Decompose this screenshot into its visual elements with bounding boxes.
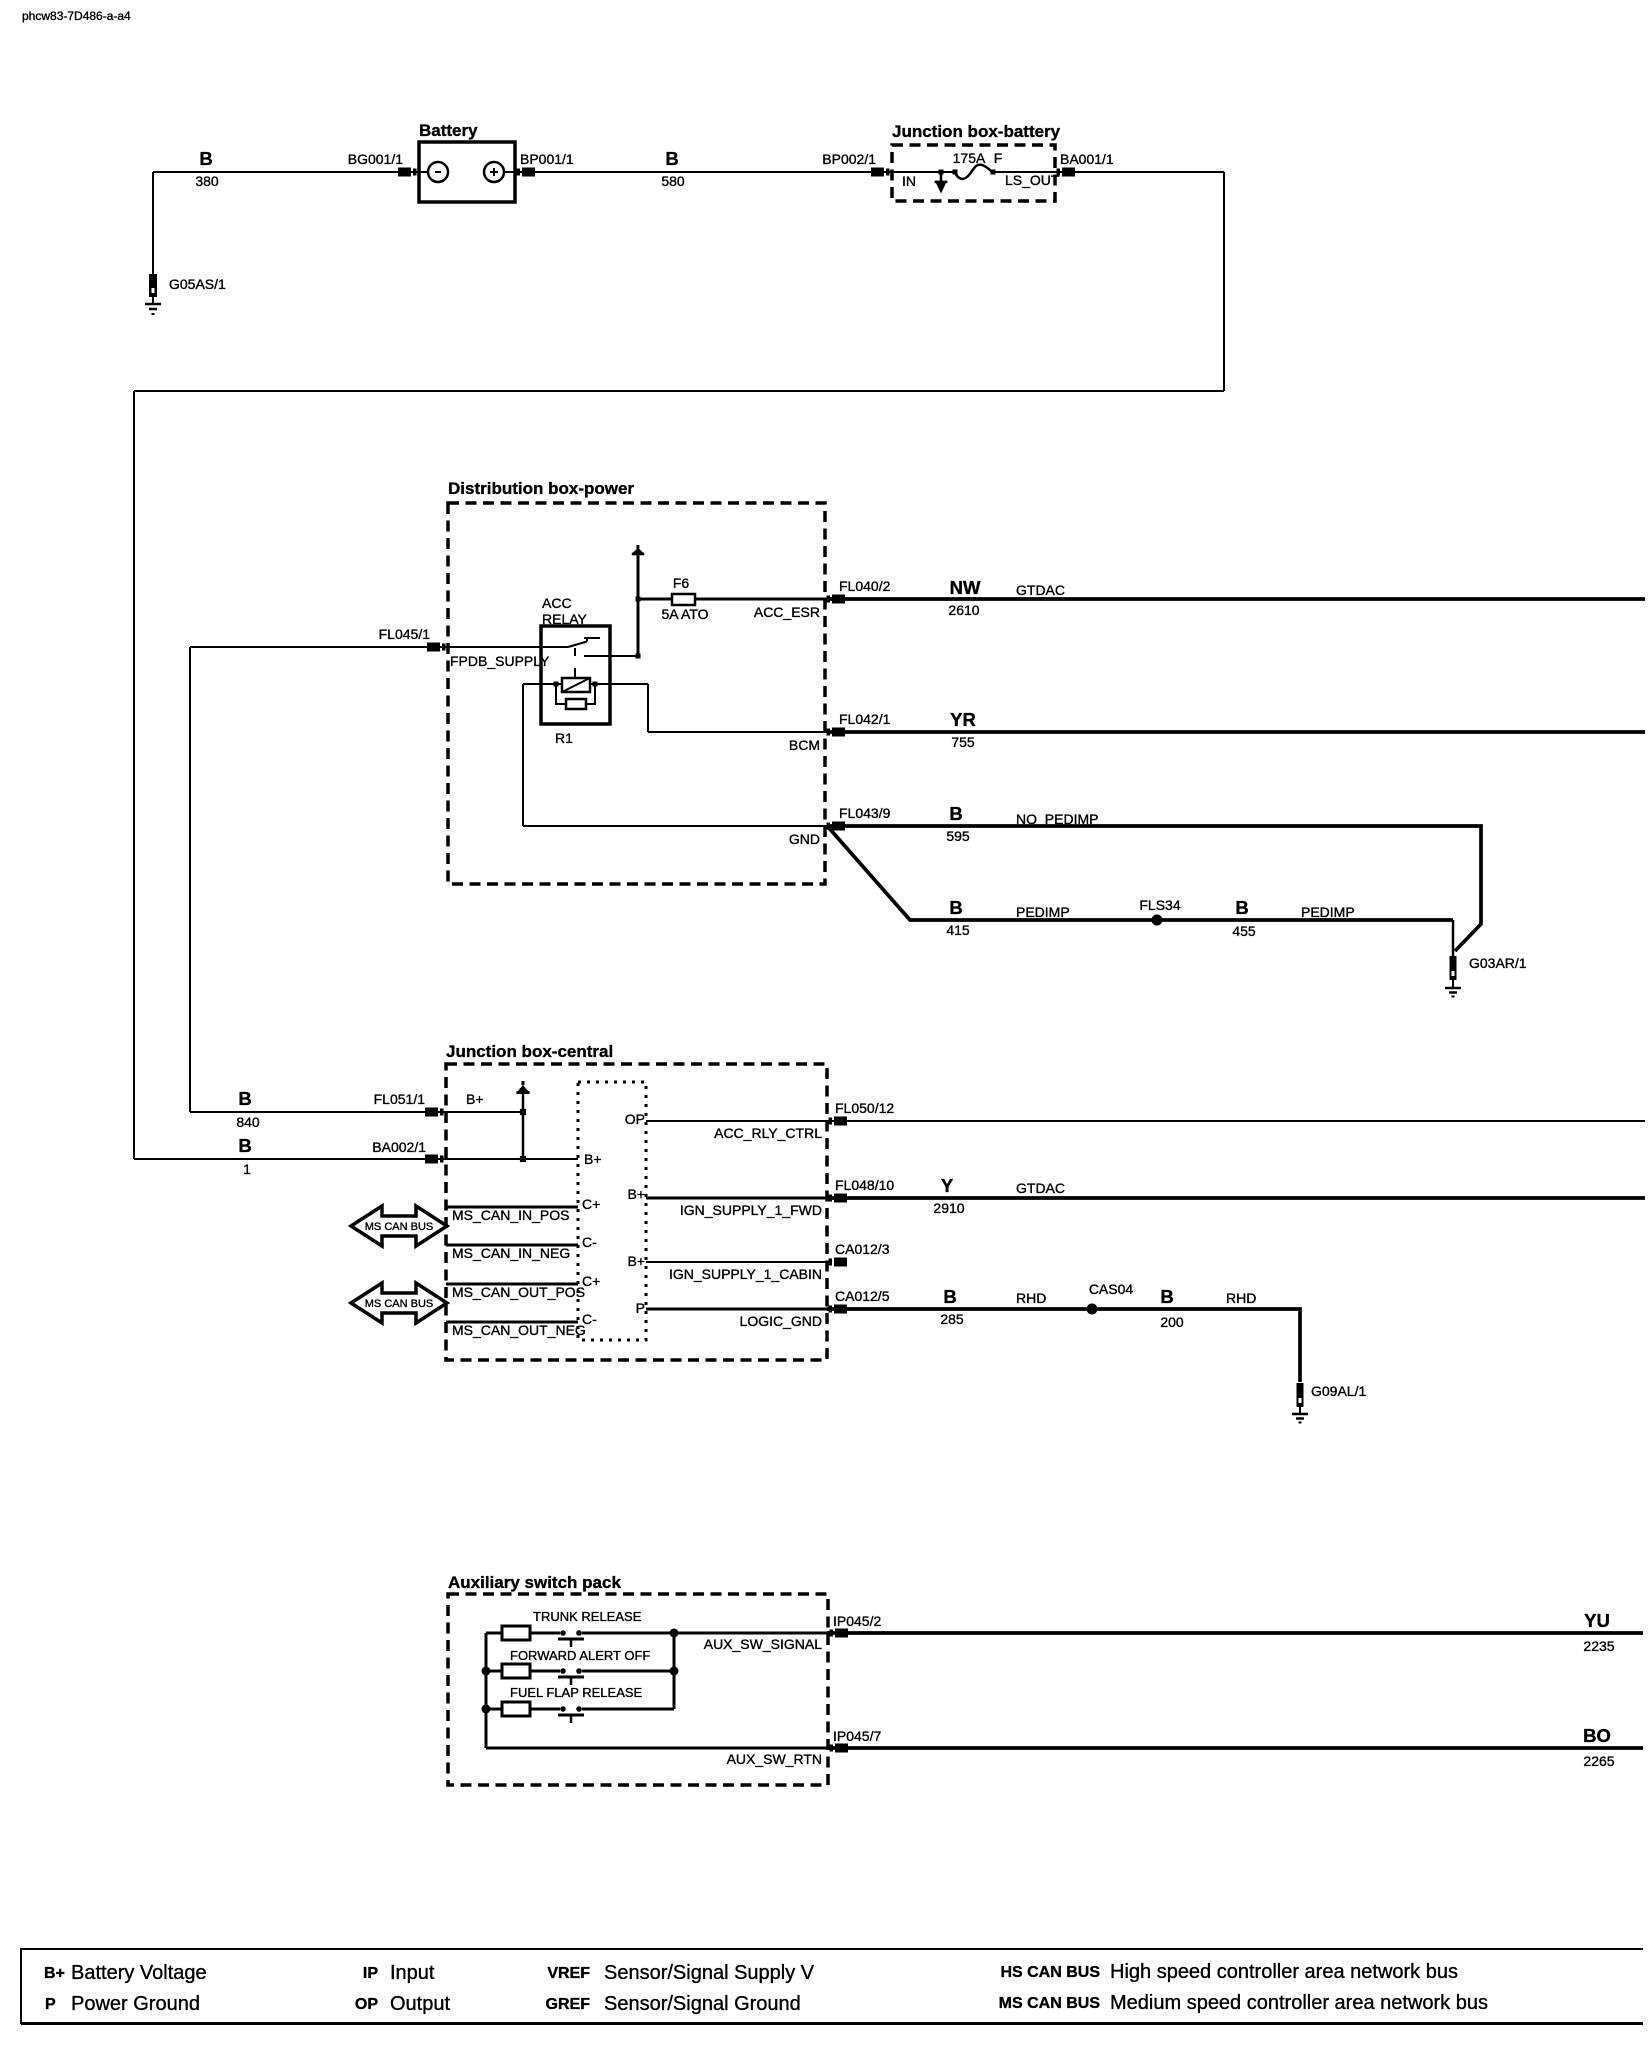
svg-text:B: B — [199, 148, 212, 169]
svg-text:G05AS/1: G05AS/1 — [169, 276, 226, 292]
svg-text:Input: Input — [390, 1962, 435, 1984]
svg-text:MS CAN BUS: MS CAN BUS — [365, 1298, 433, 1310]
svg-text:Power Ground: Power Ground — [71, 1993, 200, 2015]
svg-text:ACC_ESR: ACC_ESR — [754, 604, 820, 620]
svg-text:Battery: Battery — [419, 121, 478, 140]
svg-text:FL042/1: FL042/1 — [839, 711, 891, 727]
svg-text:BA001/1: BA001/1 — [1060, 151, 1114, 167]
svg-text:BCM: BCM — [789, 737, 820, 753]
svg-text:B: B — [238, 1135, 251, 1156]
svg-text:R1: R1 — [555, 730, 573, 746]
svg-text:B: B — [238, 1088, 251, 1109]
svg-text:B: B — [1235, 897, 1248, 918]
svg-text:2610: 2610 — [948, 602, 979, 618]
svg-text:FPDB_SUPPLY: FPDB_SUPPLY — [450, 653, 550, 669]
svg-text:C+: C+ — [582, 1273, 600, 1289]
svg-text:Auxiliary switch pack: Auxiliary switch pack — [448, 1573, 621, 1592]
svg-text:FORWARD ALERT OFF: FORWARD ALERT OFF — [510, 1648, 650, 1663]
svg-text:OP: OP — [355, 1996, 378, 2013]
svg-text:B+: B+ — [627, 1186, 645, 1202]
svg-text:2265: 2265 — [1583, 1753, 1614, 1769]
svg-text:B+: B+ — [584, 1151, 602, 1167]
svg-text:IP045/2: IP045/2 — [833, 1613, 881, 1629]
svg-text:1: 1 — [243, 1161, 251, 1177]
svg-text:B: B — [1160, 1286, 1173, 1307]
svg-text:B: B — [943, 1286, 956, 1307]
svg-text:580: 580 — [661, 173, 685, 189]
svg-text:IN: IN — [902, 173, 916, 189]
svg-text:175A: 175A — [953, 150, 986, 166]
svg-text:Sensor/Signal Supply V: Sensor/Signal Supply V — [604, 1962, 815, 1984]
svg-text:Sensor/Signal Ground: Sensor/Signal Ground — [604, 1993, 801, 2015]
svg-text:2910: 2910 — [933, 1200, 964, 1216]
svg-text:MS CAN BUS: MS CAN BUS — [365, 1221, 433, 1233]
svg-text:5A ATO: 5A ATO — [662, 606, 709, 622]
svg-text:B: B — [949, 803, 962, 824]
svg-text:BP002/1: BP002/1 — [822, 151, 876, 167]
svg-text:Battery Voltage: Battery Voltage — [71, 1962, 207, 1984]
svg-text:NW: NW — [950, 577, 981, 598]
svg-text:BO: BO — [1583, 1725, 1611, 1746]
svg-text:285: 285 — [940, 1311, 964, 1327]
svg-text:415: 415 — [946, 922, 970, 938]
svg-text:C-: C- — [582, 1311, 597, 1327]
svg-text:Output: Output — [390, 1993, 450, 2015]
svg-text:AUX_SW_SIGNAL: AUX_SW_SIGNAL — [704, 1636, 822, 1652]
svg-text:LOGIC_GND: LOGIC_GND — [740, 1313, 822, 1329]
svg-text:B+: B+ — [466, 1091, 484, 1107]
svg-text:IP045/7: IP045/7 — [833, 1728, 881, 1744]
svg-text:B+: B+ — [627, 1253, 645, 1269]
svg-text:840: 840 — [236, 1114, 260, 1130]
svg-text:AUX_SW_RTN: AUX_SW_RTN — [727, 1751, 822, 1767]
svg-text:IGN_SUPPLY_1_CABIN: IGN_SUPPLY_1_CABIN — [669, 1266, 822, 1282]
svg-text:FL045/1: FL045/1 — [379, 626, 431, 642]
svg-text:C-: C- — [582, 1234, 597, 1250]
svg-text:LS_OUT: LS_OUT — [1005, 172, 1060, 188]
svg-text:OP: OP — [625, 1111, 645, 1127]
svg-text:FL040/2: FL040/2 — [839, 578, 891, 594]
svg-text:FL051/1: FL051/1 — [374, 1091, 426, 1107]
svg-text:YR: YR — [950, 709, 976, 730]
svg-text:MS_CAN_IN_POS: MS_CAN_IN_POS — [452, 1207, 569, 1223]
svg-text:IP: IP — [363, 1965, 378, 1982]
svg-text:B: B — [949, 897, 962, 918]
svg-text:FLS34: FLS34 — [1139, 897, 1180, 913]
svg-text:BG001/1: BG001/1 — [348, 151, 403, 167]
svg-text:IGN_SUPPLY_1_FWD: IGN_SUPPLY_1_FWD — [680, 1202, 822, 1218]
svg-text:High speed controller area net: High speed controller area network bus — [1110, 1961, 1458, 1983]
svg-text:Junction box-central: Junction box-central — [446, 1042, 613, 1061]
svg-text:FL043/9: FL043/9 — [839, 805, 891, 821]
svg-text:CA012/5: CA012/5 — [835, 1288, 890, 1304]
svg-text:BP001/1: BP001/1 — [520, 151, 574, 167]
svg-text:B: B — [665, 148, 678, 169]
svg-text:GTDAC: GTDAC — [1016, 582, 1065, 598]
svg-text:MS CAN BUS: MS CAN BUS — [999, 1995, 1101, 2012]
svg-text:G09AL/1: G09AL/1 — [1311, 1383, 1366, 1399]
svg-text:MS_CAN_OUT_NEG: MS_CAN_OUT_NEG — [452, 1322, 586, 1338]
svg-text:C+: C+ — [582, 1196, 600, 1212]
svg-text:2235: 2235 — [1583, 1638, 1614, 1654]
svg-text:TRUNK RELEASE: TRUNK RELEASE — [533, 1609, 642, 1624]
svg-text:Medium speed controller area n: Medium speed controller area network bus — [1110, 1992, 1488, 2014]
svg-text:B+: B+ — [44, 1965, 65, 1982]
svg-text:P: P — [636, 1300, 645, 1316]
svg-text:Distribution box-power: Distribution box-power — [448, 479, 634, 498]
svg-text:ACC_RLY_CTRL: ACC_RLY_CTRL — [714, 1125, 822, 1141]
svg-text:Junction box-battery: Junction box-battery — [892, 122, 1061, 141]
svg-text:P: P — [45, 1996, 56, 2013]
svg-text:CA012/3: CA012/3 — [835, 1241, 890, 1257]
svg-text:200: 200 — [1160, 1314, 1184, 1330]
svg-text:CAS04: CAS04 — [1089, 1281, 1134, 1297]
svg-text:Y: Y — [941, 1175, 954, 1196]
svg-text:F: F — [994, 150, 1003, 166]
svg-text:RHD: RHD — [1016, 1290, 1046, 1306]
svg-text:MS_CAN_OUT_POS: MS_CAN_OUT_POS — [452, 1284, 585, 1300]
svg-text:MS_CAN_IN_NEG: MS_CAN_IN_NEG — [452, 1245, 570, 1261]
svg-text:GTDAC: GTDAC — [1016, 1180, 1065, 1196]
svg-text:455: 455 — [1232, 923, 1256, 939]
svg-text:ACC: ACC — [542, 595, 572, 611]
svg-text:NO_PEDIMP: NO_PEDIMP — [1016, 811, 1098, 827]
svg-text:F6: F6 — [673, 575, 690, 591]
svg-text:380: 380 — [195, 173, 219, 189]
svg-text:GND: GND — [789, 831, 820, 847]
svg-text:RHD: RHD — [1226, 1290, 1256, 1306]
svg-text:PEDIMP: PEDIMP — [1016, 904, 1070, 920]
svg-text:BA002/1: BA002/1 — [372, 1139, 426, 1155]
svg-text:phcw83-7D486-a-a4: phcw83-7D486-a-a4 — [22, 9, 131, 23]
svg-text:595: 595 — [946, 828, 970, 844]
svg-text:G03AR/1: G03AR/1 — [1469, 955, 1527, 971]
svg-text:755: 755 — [951, 734, 975, 750]
svg-text:FUEL FLAP RELEASE: FUEL FLAP RELEASE — [510, 1685, 643, 1700]
svg-text:HS CAN BUS: HS CAN BUS — [1000, 1964, 1100, 1981]
svg-text:VREF: VREF — [547, 1965, 590, 1982]
svg-text:PEDIMP: PEDIMP — [1301, 904, 1355, 920]
svg-text:YU: YU — [1584, 1610, 1610, 1631]
svg-text:FL048/10: FL048/10 — [835, 1177, 894, 1193]
svg-text:FL050/12: FL050/12 — [835, 1100, 894, 1116]
svg-text:GREF: GREF — [546, 1996, 591, 2013]
